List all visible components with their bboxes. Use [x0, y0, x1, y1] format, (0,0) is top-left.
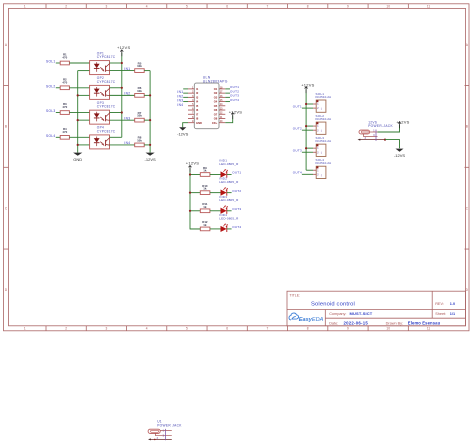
- svg-text:IN4: IN4: [124, 141, 130, 145]
- wire OUT4 to SOL4 pin2: [302, 173, 313, 175]
- svg-text:4: 4: [146, 327, 148, 331]
- frame top/bottom ticks: [46, 4, 408, 331]
- wire IN1 to ULN pin 1: [183, 88, 188, 90]
- wire jack pin1 to +12VS: [378, 125, 400, 132]
- svg-text:O4: O4: [214, 100, 218, 104]
- svg-text:OUT2: OUT2: [293, 126, 302, 130]
- wire IND4 to OUT4: [227, 228, 232, 230]
- wire ULN CD+ pin to +12VS: [225, 115, 232, 122]
- wire OP2 cathode to GND rail: [78, 94, 90, 96]
- svg-text:POWER-JACK: POWER-JACK: [368, 124, 393, 128]
- svg-text:GND: GND: [73, 157, 82, 162]
- svg-text:+12VS: +12VS: [396, 119, 409, 124]
- wire R7 to -12VS rail: [144, 119, 150, 121]
- svg-text:1: 1: [24, 327, 26, 331]
- svg-text:KF2510-2A: KF2510-2A: [316, 161, 332, 165]
- svg-text:KF2510-2A: KF2510-2A: [316, 117, 332, 121]
- svg-text:1/1: 1/1: [450, 312, 455, 316]
- resistor R7 (10k): [135, 111, 145, 122]
- SOL1 pin stubs: [313, 104, 316, 108]
- svg-text:6: 6: [226, 4, 228, 8]
- wire OP1 collector to +12VS rail: [110, 62, 122, 64]
- LED IND2 LED-0805_R: [219, 177, 239, 196]
- svg-text:470: 470: [62, 56, 67, 60]
- svg-text:O8: O8: [214, 117, 218, 121]
- wire -12VS rail (opto section): [149, 71, 151, 153]
- power flag +12VS (SOL section): [301, 83, 314, 94]
- svg-text:10: 10: [386, 4, 390, 8]
- svg-text:4: 4: [146, 4, 148, 8]
- ULN left pin numbers 1-9: [192, 87, 194, 123]
- junction cathode rail row3: [77, 119, 79, 121]
- svg-text:-12VS: -12VS: [177, 132, 188, 137]
- svg-text:7: 7: [267, 4, 269, 8]
- wire GND cathode rail: [77, 71, 79, 153]
- svg-text:-12VS: -12VS: [394, 153, 405, 158]
- svg-text:OUT3: OUT3: [232, 207, 241, 211]
- svg-text:6: 6: [226, 327, 228, 331]
- junction -12VS rail row3: [149, 119, 151, 121]
- title block Company field: [329, 311, 373, 316]
- wire R5 to -12VS rail: [144, 70, 150, 72]
- junction cathode rail row4: [77, 144, 79, 146]
- svg-text:2022-06-15: 2022-06-15: [344, 320, 369, 325]
- svg-text:O7: O7: [214, 112, 218, 116]
- svg-text:OUT3: OUT3: [293, 148, 302, 152]
- power flag +12VS (jack): [396, 119, 409, 128]
- frame row letters: [5, 43, 469, 292]
- wire OP4 emitter to R8: [110, 144, 135, 146]
- wire R9 to IND1: [210, 174, 221, 176]
- resistor R11 (1k): [200, 202, 210, 213]
- svg-text:2: 2: [65, 327, 67, 331]
- wire OP3 emitter to R7: [110, 119, 135, 121]
- connector SOL3 KF2510-2A: [316, 136, 332, 157]
- optocoupler OP2 CYPC817C: [90, 76, 116, 99]
- wire R2 to OP2 anode: [69, 87, 89, 89]
- wire +12VS rail to SOL1 pin1: [306, 103, 313, 105]
- svg-text:11: 11: [427, 327, 431, 331]
- svg-text:470: 470: [62, 105, 67, 109]
- resistor R4 (470): [60, 127, 69, 139]
- svg-text:1: 1: [24, 4, 26, 8]
- svg-text:10k: 10k: [137, 89, 142, 93]
- resistor R6 (10k): [135, 86, 145, 97]
- wire ULN pin 15 to OUT4: [225, 101, 230, 103]
- svg-text:+12VS: +12VS: [117, 45, 130, 50]
- optocoupler OP3 CYPC817C: [90, 101, 116, 124]
- wire ULN pin 18 to OUT1: [225, 88, 230, 90]
- svg-text:470: 470: [62, 80, 67, 84]
- connector SOL2 KF2510-2A: [316, 114, 332, 134]
- connector SOL1 KF2510-2A: [316, 92, 332, 113]
- svg-text:10k: 10k: [137, 114, 142, 118]
- svg-text:2: 2: [65, 4, 67, 8]
- svg-text:10k: 10k: [137, 139, 142, 143]
- svg-text:CYPC817C: CYPC817C: [97, 80, 116, 84]
- resistor R12 (1k): [200, 220, 210, 231]
- wire IN2 to ULN pin 2: [183, 92, 188, 94]
- svg-text:1.0: 1.0: [450, 302, 455, 306]
- svg-text:CYPC817C: CYPC817C: [97, 55, 116, 59]
- power flag +12VS (LED section): [186, 161, 199, 172]
- wire OP3 cathode to GND rail: [78, 119, 90, 121]
- svg-text:GND: GND: [196, 121, 202, 125]
- junction collector rail row1: [121, 62, 123, 64]
- junction -12VS rail row4: [149, 144, 151, 146]
- ULN left pins 1-9: [188, 89, 194, 123]
- resistor R5 (10k): [135, 61, 145, 72]
- IC ULN ULN2803APG body: [194, 76, 228, 129]
- svg-text:KF2510-2A: KF2510-2A: [316, 139, 332, 143]
- wire R1 to OP1 anode: [69, 62, 89, 64]
- SOL4 pin stubs: [313, 170, 316, 174]
- svg-text:LED-0805_R: LED-0805_R: [219, 198, 239, 202]
- svg-text:KF2510-2A: KF2510-2A: [316, 95, 332, 99]
- svg-text:Solenoid control: Solenoid control: [311, 301, 355, 307]
- connector 12VS POWER-JACK: [358, 121, 394, 141]
- LED IND1 LED-0805_R: [219, 159, 239, 178]
- LED IND4 LED-0805_R: [219, 213, 239, 232]
- ground -12VS (opto section): [145, 153, 156, 162]
- wire OP1 emitter to R5: [110, 70, 135, 72]
- wire IND3 to OUT3: [227, 210, 232, 212]
- svg-text:▯: ▯: [321, 108, 322, 111]
- svg-text:B: B: [466, 125, 468, 129]
- ULN right pins 18-10: [219, 89, 225, 123]
- title block REV field: [435, 302, 455, 306]
- wire IN3 to ULN pin 3: [183, 96, 188, 98]
- svg-text:TITLE:: TITLE:: [290, 293, 301, 297]
- svg-text:Sheet:: Sheet:: [435, 312, 446, 316]
- connector U1 POWER JACK (outside frame): [148, 420, 182, 441]
- wire ULN pin 17 to OUT2: [225, 92, 230, 94]
- wire OP4 cathode to GND rail: [78, 144, 90, 146]
- wire SOL4 to R4: [56, 136, 60, 138]
- svg-text:ULN2803APG: ULN2803APG: [203, 79, 228, 83]
- svg-text:1k: 1k: [203, 169, 207, 173]
- junction collector rail row2: [121, 87, 123, 89]
- SOL3 pin stubs: [313, 148, 316, 152]
- svg-text:MUST-SICT: MUST-SICT: [350, 311, 373, 316]
- svg-text:10: 10: [386, 327, 390, 331]
- svg-text:LED-0805_R: LED-0805_R: [219, 180, 239, 184]
- svg-text:O3: O3: [214, 95, 218, 99]
- EasyEDA logo: [289, 313, 324, 323]
- SOL2 pin stubs: [313, 126, 316, 130]
- wire ULN GND pin to -12VS: [183, 123, 188, 128]
- wire IND1 to OUT1: [227, 174, 232, 176]
- svg-text:-12VS: -12VS: [145, 157, 156, 162]
- junction SOL rail row1: [305, 103, 307, 105]
- svg-text:8: 8: [307, 327, 309, 331]
- title block Drawn By field: [386, 320, 441, 325]
- svg-text:O1: O1: [214, 87, 218, 91]
- svg-text:Drawn By:: Drawn By:: [386, 321, 404, 325]
- wire +12VS LED rail: [190, 168, 200, 229]
- svg-text:Company:: Company:: [329, 312, 346, 316]
- svg-text:▯: ▯: [321, 130, 322, 133]
- resistor R9 (1k): [200, 166, 210, 177]
- frame side ticks: [4, 86, 470, 250]
- wire +12VS rail to SOL2 pin1: [306, 125, 313, 127]
- wire R8 to -12VS rail: [144, 144, 150, 146]
- svg-text:10k: 10k: [137, 64, 142, 68]
- resistor R2 (470): [60, 77, 69, 89]
- resistor R3 (470): [60, 102, 69, 114]
- svg-text:OUT4: OUT4: [230, 98, 239, 102]
- svg-text:Elemo Esensau: Elemo Esensau: [408, 320, 441, 325]
- svg-text:POWER JACK: POWER JACK: [157, 423, 182, 427]
- wire OP1 cathode to GND rail: [78, 70, 90, 72]
- wire OP4 collector to +12VS rail: [110, 136, 122, 138]
- wire OUT3 to SOL3 pin2: [302, 151, 313, 153]
- svg-text:+12VS: +12VS: [229, 109, 242, 114]
- svg-text:+12VS: +12VS: [301, 83, 314, 88]
- wire OP3 collector to +12VS rail: [110, 112, 122, 114]
- sheet frame inner border: [9, 8, 466, 325]
- svg-text:IN3: IN3: [124, 116, 130, 120]
- ULN internal pin names O1-O8 CD+: [212, 87, 218, 125]
- wire SOL2 to R2: [56, 87, 60, 89]
- wire OP2 collector to +12VS rail: [110, 87, 122, 89]
- junction LED rail row3: [189, 210, 191, 212]
- svg-text:OUT4: OUT4: [293, 171, 302, 175]
- title block Sheet field: [435, 312, 455, 316]
- junction LED rail row1: [189, 173, 191, 175]
- svg-text:CD+: CD+: [212, 121, 218, 125]
- svg-text:▯: ▯: [321, 174, 322, 177]
- svg-text:8: 8: [307, 4, 309, 8]
- sheet frame outer border: [4, 4, 470, 331]
- wire +12VS rail to R11: [190, 210, 200, 212]
- ground GND (opto section): [73, 153, 82, 162]
- svg-text:1k: 1k: [203, 205, 207, 209]
- wire OUT2 to SOL2 pin2: [302, 129, 313, 131]
- optocoupler OP1 CYPC817C: [90, 51, 116, 74]
- svg-text:O5: O5: [214, 104, 218, 108]
- svg-text:IN2: IN2: [124, 92, 130, 96]
- wire SOL3 to R3: [56, 112, 60, 114]
- svg-text:+12VS: +12VS: [186, 161, 199, 166]
- svg-text:5: 5: [186, 327, 188, 331]
- svg-text:5: 5: [186, 4, 188, 8]
- svg-text:O6: O6: [214, 108, 218, 112]
- LED IND3 LED-0805_R: [219, 195, 239, 214]
- svg-text:Date:: Date:: [329, 321, 338, 325]
- title block outline: [287, 291, 466, 326]
- svg-text:OUT2: OUT2: [232, 189, 241, 193]
- svg-text:O2: O2: [214, 91, 218, 95]
- svg-text:470: 470: [62, 130, 67, 134]
- frame column numbers: [24, 4, 430, 330]
- wire R10 to IND2: [210, 192, 221, 194]
- ULN right pin numbers 18-10: [220, 87, 223, 123]
- wire +12VS rail to SOL3 pin1: [306, 147, 313, 149]
- svg-text:SOL4: SOL4: [46, 134, 56, 138]
- svg-text:9: 9: [347, 327, 349, 331]
- svg-text:1k: 1k: [203, 187, 207, 191]
- svg-text:3: 3: [105, 327, 107, 331]
- wire +12VS rail to R10: [190, 192, 200, 194]
- resistor R1 (470): [60, 53, 69, 65]
- svg-text:B: B: [5, 125, 7, 129]
- power flag +12VS (ULN): [229, 109, 242, 119]
- ground -12VS (ULN): [177, 127, 188, 136]
- resistor R8 (10k): [135, 136, 145, 147]
- svg-text:7: 7: [267, 327, 269, 331]
- svg-text:▯: ▯: [321, 152, 322, 155]
- svg-text:EasyEDA: EasyEDA: [299, 317, 324, 323]
- wire +12VS rail to SOL4 pin1: [306, 169, 313, 171]
- junction cathode rail row2: [77, 94, 79, 96]
- wire IN4 to ULN pin 4: [183, 101, 188, 103]
- svg-text:IN1: IN1: [124, 67, 130, 71]
- svg-text:CYPC817C: CYPC817C: [97, 130, 116, 134]
- junction SOL rail row3: [305, 147, 307, 149]
- junction SOL rail row2: [305, 125, 307, 127]
- svg-text:SOL2: SOL2: [46, 84, 56, 88]
- power flag +12VS (opto section): [117, 45, 130, 56]
- junction LED rail row2: [189, 192, 191, 194]
- wire SOL1 to R1: [56, 62, 60, 64]
- title block Date field: [329, 320, 368, 325]
- svg-text:OUT1: OUT1: [232, 171, 241, 175]
- wire IND2 to OUT2: [227, 192, 232, 194]
- wire R12 to IND4: [210, 228, 221, 230]
- ground -12VS (jack): [394, 149, 405, 158]
- junction jack sleeve: [384, 139, 386, 141]
- svg-text:REV:: REV:: [435, 302, 444, 306]
- title block TITLE field: [290, 293, 355, 307]
- junction -12VS rail row2: [149, 94, 151, 96]
- connector SOL4 KF2510-2A: [316, 158, 332, 179]
- svg-text:OUT1: OUT1: [293, 104, 302, 108]
- optocoupler OP4 CYPC817C: [90, 126, 116, 149]
- wire ULN pin 16 to OUT3: [225, 96, 230, 98]
- wire R4 to OP4 anode: [69, 136, 89, 138]
- svg-text:1k: 1k: [203, 223, 207, 227]
- svg-text:SOL1: SOL1: [46, 60, 56, 64]
- svg-text:3: 3: [105, 4, 107, 8]
- wire +12VS rail to R12: [190, 228, 200, 230]
- svg-text:LED-0805_R: LED-0805_R: [219, 162, 239, 166]
- wire jack sleeve to -12VS: [385, 140, 400, 149]
- svg-text:LED-0805_R: LED-0805_R: [219, 216, 239, 220]
- wire R6 to -12VS rail: [144, 94, 150, 96]
- wire +12VS SOL rail: [305, 90, 307, 171]
- svg-text:IN4: IN4: [177, 103, 183, 107]
- wire R3 to OP3 anode: [69, 112, 89, 114]
- svg-text:11: 11: [427, 4, 431, 8]
- wire OP2 emitter to R6: [110, 94, 135, 96]
- wire +12VS collector rail: [121, 53, 123, 138]
- wire +12VS rail to R9: [190, 174, 200, 176]
- resistor R10 (1k): [200, 184, 210, 195]
- svg-text:OUT4: OUT4: [232, 225, 241, 229]
- junction collector rail row3: [121, 111, 123, 113]
- wire OUT1 to SOL1 pin2: [302, 107, 313, 109]
- svg-text:9: 9: [347, 4, 349, 8]
- svg-text:CYPC817C: CYPC817C: [97, 105, 116, 109]
- wire R11 to IND3: [210, 210, 221, 212]
- ULN internal pin names I1-I8 GND: [196, 87, 202, 125]
- svg-text:SOL3: SOL3: [46, 109, 56, 113]
